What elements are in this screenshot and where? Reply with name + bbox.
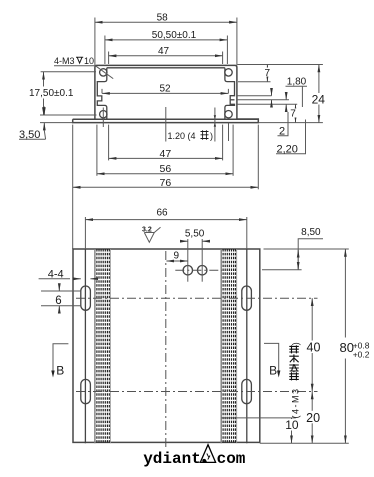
dim 5,50 <box>180 229 210 242</box>
svg-text:47: 47 <box>158 46 170 57</box>
svg-text:40: 40 <box>307 341 321 355</box>
svg-text:1.20 (4: 1.20 (4 <box>168 131 196 141</box>
svg-text:52: 52 <box>159 84 171 95</box>
svg-text:47: 47 <box>160 148 172 160</box>
centerline vertical profile <box>165 107 167 142</box>
dim 40 <box>306 298 321 391</box>
svg-text:B: B <box>269 363 277 377</box>
svg-text:ydiant.: ydiant. <box>143 450 210 468</box>
svg-text:5,50: 5,50 <box>185 229 205 240</box>
thread length ext line <box>221 417 296 419</box>
svg-text:4-4: 4-4 <box>48 269 64 281</box>
wall line left <box>84 249 86 443</box>
screw boss top-right <box>225 69 232 76</box>
svg-text:7: 7 <box>290 109 296 120</box>
hole right <box>198 266 207 275</box>
screw boss bottom-left <box>100 111 107 118</box>
dim 58 <box>95 12 237 65</box>
groove mid line right <box>230 99 234 101</box>
dim 47 bottom <box>109 125 223 161</box>
dim 66 <box>85 208 246 249</box>
svg-text:com: com <box>217 450 246 468</box>
svg-text:+0.2: +0.2 <box>353 350 370 360</box>
dim 2 <box>278 93 289 138</box>
svg-text:58: 58 <box>157 12 169 23</box>
svg-text:2: 2 <box>279 126 285 138</box>
section arrow B right <box>264 343 280 377</box>
watermark triangle logo <box>200 445 215 463</box>
dim 52 interior <box>102 84 228 95</box>
slot top-left <box>81 286 91 310</box>
inner top surface <box>107 67 225 69</box>
dim 17,50±0.1 <box>28 72 97 115</box>
svg-text:6: 6 <box>55 295 61 307</box>
dim 8,50 <box>262 227 323 270</box>
knurl band left <box>95 249 111 443</box>
groove ext lines right <box>237 96 297 105</box>
dim 7 lower right <box>290 104 298 122</box>
dim 2,20 <box>276 120 306 156</box>
roughness symbol 3.2 <box>142 227 161 243</box>
svg-text:7: 7 <box>265 68 271 79</box>
profile inner wall left <box>97 68 107 120</box>
ext line top right <box>238 64 323 66</box>
dim 3,50 <box>19 107 73 141</box>
hole axis lines <box>175 239 222 282</box>
hole left <box>183 266 192 275</box>
centerline row 1 <box>76 297 318 299</box>
svg-text:66: 66 <box>156 208 168 219</box>
svg-text:24: 24 <box>312 92 326 106</box>
dim 1,80 <box>272 77 308 108</box>
ext line bottom right <box>258 122 323 124</box>
plan outer rect <box>73 249 260 442</box>
svg-text:9: 9 <box>174 251 180 262</box>
profile body outline <box>73 65 259 122</box>
slot bottom-right <box>242 379 252 403</box>
profile inner wall right <box>225 68 235 120</box>
svg-text:2,20: 2,20 <box>277 144 298 156</box>
centerline boss bottom-right <box>228 123 230 141</box>
label 4-M3 depth 10 <box>54 56 113 79</box>
svg-text:4-M3: 4-M3 <box>54 56 75 66</box>
slot top-right <box>242 286 252 310</box>
section arrow B left <box>51 344 68 378</box>
svg-text:8,50: 8,50 <box>301 227 321 238</box>
svg-text:17,50±0.1: 17,50±0.1 <box>29 88 74 99</box>
knurl band right <box>221 249 237 443</box>
dim 76 <box>73 125 259 249</box>
svg-text:56: 56 <box>160 163 172 175</box>
svg-text:10: 10 <box>285 418 299 432</box>
centerline row 2 <box>76 391 318 393</box>
svg-text:3,50: 3,50 <box>19 129 40 141</box>
screw boss top-left <box>100 69 107 76</box>
svg-text:): ) <box>210 131 213 141</box>
dim 4-4 <box>39 269 97 281</box>
dim 10 <box>285 418 300 443</box>
centerline vertical <box>165 251 167 448</box>
svg-text:50,50±0.1: 50,50±0.1 <box>152 30 197 41</box>
leader 1.20 wall thickness <box>168 108 217 142</box>
screw boss bottom-right <box>225 111 232 118</box>
svg-text:20: 20 <box>306 411 320 425</box>
dim 56 <box>97 125 233 176</box>
svg-text:B: B <box>56 363 64 377</box>
dim 80 with tolerance <box>260 249 374 443</box>
dim 9 <box>166 251 187 262</box>
dim 6 <box>41 284 81 314</box>
label 4-M3 thread length vertical <box>289 342 300 418</box>
svg-text:76: 76 <box>160 177 172 189</box>
svg-text:(4-M3: (4-M3 <box>290 387 300 418</box>
wall line right <box>246 249 248 443</box>
dim 20 <box>306 392 321 444</box>
dim 47 top <box>109 46 223 64</box>
centerline boss bottom-left <box>102 108 104 128</box>
svg-text:10: 10 <box>84 56 94 66</box>
dim 24 <box>311 65 326 123</box>
dim 7 top right <box>238 65 272 82</box>
slot bottom-left <box>81 379 91 403</box>
svg-text:): ) <box>290 342 300 345</box>
dim 50,50±0.1 <box>105 30 227 64</box>
